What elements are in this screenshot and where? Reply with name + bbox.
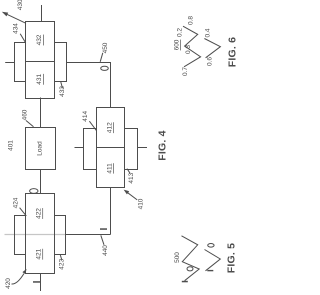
- FIG.5 zigzag left chain: [182, 236, 200, 281]
- svg-text:500: 500: [174, 252, 181, 263]
- svg-text:424: 424: [13, 197, 20, 208]
- svg-text:600: 600: [173, 39, 180, 50]
- svg-text:412: 412: [106, 122, 113, 133]
- wire 440 horizontal to group 420: [66, 234, 111, 236]
- winding box left of 421: [15, 216, 26, 255]
- svg-text:411: 411: [106, 163, 113, 174]
- mark 0 at box 422 input: [30, 189, 38, 194]
- leader 450: [100, 53, 103, 62]
- svg-text:FIG. 6: FIG. 6: [227, 37, 239, 67]
- winding box left of 412: [84, 129, 97, 170]
- svg-text:0.7: 0.7: [182, 67, 189, 76]
- winding box right of 421: [55, 216, 66, 255]
- leader 423: [60, 255, 62, 260]
- svg-text:431: 431: [36, 73, 43, 84]
- arrowhead 430: [2, 12, 8, 17]
- svg-text:414: 414: [82, 110, 89, 121]
- FIG.5 mark 0 right: [208, 244, 214, 248]
- winding box right of 412: [125, 129, 138, 170]
- svg-text:421: 421: [35, 248, 42, 259]
- leader 460: [26, 121, 34, 127]
- svg-text:440: 440: [102, 245, 109, 256]
- box 412/411 outer: [97, 108, 125, 188]
- leader 414: [89, 121, 96, 131]
- box 432/431 outer: [26, 22, 55, 99]
- FIG.6 zigzag right chain: [204, 39, 220, 58]
- leader 440: [101, 235, 104, 245]
- arrow 420 shaft: [12, 274, 25, 285]
- arrow 410 shaft: [128, 193, 137, 200]
- FIG.5 zigzag right chain: [205, 250, 221, 271]
- svg-text:0.6: 0.6: [207, 57, 214, 66]
- wire 450 from group 430 to group 410: [66, 63, 111, 108]
- wire left stub of group 430: [5, 62, 14, 64]
- gray line through group 420: [5, 234, 66, 236]
- arrowhead 420: [22, 269, 26, 274]
- svg-text:FIG. 5: FIG. 5: [226, 243, 238, 273]
- mark 1 at wire 440: [100, 228, 107, 230]
- svg-text:423: 423: [59, 258, 66, 269]
- mark 0 at box 412 input: [101, 66, 109, 70]
- svg-text:0.4: 0.4: [205, 28, 212, 37]
- svg-text:0.2: 0.2: [177, 28, 184, 37]
- svg-text:460: 460: [22, 109, 29, 120]
- svg-text:430: 430: [17, 0, 24, 10]
- divider 432/431: [26, 61, 55, 63]
- svg-text:422: 422: [35, 208, 42, 219]
- svg-text:FIG. 4: FIG. 4: [157, 130, 169, 160]
- svg-text:420: 420: [5, 278, 12, 289]
- Load box 401: [26, 128, 56, 170]
- svg-text:401: 401: [8, 140, 15, 151]
- leader 433: [61, 82, 63, 88]
- arrowhead 410: [124, 190, 130, 195]
- divider 412/411: [97, 147, 125, 149]
- mark 1 below box 421: [33, 281, 40, 283]
- svg-text:432: 432: [36, 34, 43, 45]
- svg-text:433: 433: [59, 86, 66, 97]
- arrow 430 shaft: [7, 14, 26, 23]
- wire right stub of group 410: [138, 147, 148, 149]
- wire 460 between box 431 and Load: [40, 98, 42, 128]
- winding box left of 431: [15, 43, 26, 82]
- svg-text:0.3: 0.3: [185, 45, 192, 54]
- box 422/421 outer: [26, 194, 55, 274]
- svg-text:450: 450: [102, 42, 109, 53]
- FIG.5 mark 0 left: [187, 267, 193, 271]
- FIG.5 mark 1 left: [182, 281, 188, 283]
- winding box right of 431: [55, 43, 67, 82]
- svg-text:410: 410: [137, 198, 144, 209]
- wire Load to box 422: [40, 170, 42, 194]
- leader 424: [20, 208, 27, 216]
- leader 434: [20, 34, 26, 43]
- FIG.6 zigzag left chain: [183, 26, 201, 67]
- wire stub below box 421: [40, 274, 42, 292]
- svg-text:413: 413: [128, 172, 135, 183]
- svg-text:Load: Load: [37, 141, 44, 156]
- wire left stub of group 410: [75, 147, 84, 149]
- FIG.5 mark 1 right: [207, 270, 213, 271]
- leader 413: [127, 169, 130, 174]
- wire stub above box 432: [41, 5, 43, 22]
- svg-text:434: 434: [13, 23, 20, 34]
- wire 440 from box 411 down: [110, 188, 112, 235]
- svg-text:0.8: 0.8: [188, 16, 195, 25]
